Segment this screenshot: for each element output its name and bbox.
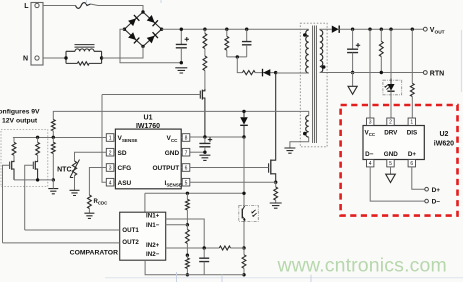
resistor R2 startup upper bbox=[203, 29, 207, 56]
svg-text:3: 3 bbox=[369, 120, 372, 126]
pin 8 U1 bbox=[181, 134, 190, 142]
pin 3 U2 bbox=[367, 118, 374, 126]
label U2 VCC bbox=[365, 129, 376, 137]
resistor R5 clamp bbox=[242, 71, 255, 75]
wire M1 gate from OUT2 bbox=[3, 165, 10, 243]
label OUTPUT pin6 bbox=[152, 165, 179, 172]
label iW620 bbox=[434, 141, 454, 148]
junction filter left bbox=[64, 56, 67, 59]
label N bbox=[23, 56, 28, 63]
diode D2 clamp bbox=[255, 69, 276, 77]
svg-text:ASU: ASU bbox=[118, 180, 132, 187]
junction rail snubberR bbox=[225, 28, 228, 31]
svg-text:IW1760: IW1760 bbox=[136, 123, 160, 130]
label VCC pin8 bbox=[167, 135, 179, 143]
optocoupler U3 LED box bbox=[383, 80, 402, 95]
ic U2 iW620 box bbox=[363, 126, 424, 160]
label L bbox=[24, 3, 29, 10]
junction VOUT LED bbox=[389, 28, 392, 31]
svg-text:3: 3 bbox=[109, 166, 112, 172]
bridge diode bottom-left bbox=[128, 32, 139, 43]
wire IN1+ bbox=[166, 219, 205, 248]
fuse F1 bbox=[76, 3, 91, 9]
junction filter right bbox=[100, 56, 103, 59]
label U2 bbox=[440, 131, 449, 138]
svg-text:COMPARATOR: COMPARATOR bbox=[70, 249, 118, 256]
svg-text:6: 6 bbox=[410, 161, 413, 167]
label D- bbox=[432, 199, 441, 206]
junction bottom rail opto bbox=[242, 273, 245, 276]
junction VOUT DIS bbox=[411, 28, 414, 31]
wire HV rail bbox=[162, 28, 309, 30]
node secondary phase dot bbox=[322, 65, 326, 69]
wire ISENSE line bbox=[190, 181, 276, 183]
junction VOUT C5 bbox=[351, 28, 354, 31]
svg-text:D+: D+ bbox=[408, 151, 417, 158]
node primary phase dot bbox=[303, 33, 307, 37]
pin 6 U1 bbox=[181, 164, 190, 172]
junction VSENSE R9 bbox=[36, 136, 39, 139]
transformer T1 auxiliary winding bbox=[306, 116, 309, 138]
junction bridge bottom bbox=[141, 45, 144, 48]
wire DC minus route bbox=[120, 29, 181, 63]
ground NTC bbox=[70, 190, 80, 195]
resistor R8 divider lower bbox=[51, 137, 55, 180]
wire config source rail bbox=[14, 179, 53, 181]
junction rail A chain bbox=[186, 192, 189, 195]
svg-text:2: 2 bbox=[109, 150, 112, 156]
op-amp U1 iW1760 box bbox=[115, 129, 181, 189]
capacitor C3 VCC bbox=[199, 137, 212, 152]
label U2 D+ bbox=[408, 151, 417, 158]
wire fuse to bridge top bbox=[91, 4, 144, 12]
label IN2- bbox=[146, 251, 160, 258]
resistor R16 IN2+ series bbox=[219, 246, 230, 250]
resistor R3 startup lower bbox=[203, 56, 207, 89]
label U1 bbox=[144, 115, 153, 122]
red dashed box U2 section bbox=[341, 105, 458, 216]
label VOUT bbox=[430, 27, 445, 36]
label U2 DIS bbox=[407, 129, 418, 136]
transistor Q2 main MOSFET bbox=[269, 73, 276, 182]
wire CFG to RCDC bbox=[89, 168, 106, 196]
bridge rectifier BR1 frame bbox=[124, 12, 161, 46]
junction bridge top bbox=[141, 10, 144, 13]
svg-text:U1: U1 bbox=[144, 115, 153, 122]
bridge diode top-left bbox=[128, 15, 139, 26]
svg-text:1: 1 bbox=[410, 120, 413, 126]
wire Q1 gate to ASU riser bbox=[102, 94, 200, 96]
junction config ground node bbox=[52, 178, 55, 181]
label SD pin2 bbox=[118, 150, 127, 157]
capacitor C2 snubber bbox=[242, 29, 252, 57]
wire OUT1 bbox=[25, 229, 120, 231]
transformer T1 core bbox=[313, 26, 317, 144]
resistor R14 chain mid bbox=[185, 225, 189, 255]
svg-text:CFG: CFG bbox=[118, 165, 132, 172]
svg-text:D−: D− bbox=[432, 199, 441, 206]
wire snubber down bbox=[237, 57, 242, 73]
svg-text:IN1+: IN1+ bbox=[146, 213, 160, 220]
svg-text:Configures 9V: Configures 9V bbox=[0, 108, 40, 115]
wire ASU riser bbox=[102, 95, 106, 183]
junction bridge left bbox=[123, 28, 126, 31]
junction chain IN1- bbox=[186, 223, 189, 226]
label VSENSE pin1 bbox=[118, 135, 138, 143]
label ISENSE pin5 bbox=[165, 180, 182, 188]
capacitor C1 bulk bbox=[176, 29, 189, 63]
resistor R13 chain top bbox=[185, 193, 189, 225]
bridge diode top-right bbox=[147, 15, 158, 26]
wire OUTPUT to gate bbox=[190, 167, 269, 169]
label ASU pin4 bbox=[118, 180, 132, 187]
svg-text:RTN: RTN bbox=[430, 70, 444, 77]
transistor Q1 startup MOSFET bbox=[200, 89, 205, 137]
ground RCDC bbox=[84, 213, 94, 218]
ground U2 GND pin bbox=[386, 167, 396, 183]
resistor R12 opto emitter bbox=[242, 248, 246, 275]
label 12V output bbox=[2, 118, 38, 125]
wire SD to NTC bbox=[75, 152, 107, 161]
junction rail C1 bbox=[180, 28, 183, 31]
inductor L1 common-mode choke winding bbox=[75, 45, 95, 52]
label COMPARATOR bbox=[70, 249, 118, 256]
label IN2+ bbox=[146, 242, 160, 249]
junction RTN C5 bbox=[351, 71, 354, 74]
wire aux bottom bbox=[290, 137, 309, 148]
wire M2 gate from OUT1 bbox=[25, 165, 34, 230]
wire bottom rail bbox=[145, 260, 244, 275]
label U2 DRV bbox=[384, 129, 398, 136]
svg-text:D−: D− bbox=[365, 151, 374, 158]
junction VSENSE divider bbox=[52, 136, 55, 139]
svg-text:OUTPUT: OUTPUT bbox=[152, 165, 179, 172]
ground sense resistor bbox=[270, 203, 282, 208]
junction chain IN2- bbox=[186, 254, 189, 257]
junction VOUT U2VCC bbox=[368, 28, 371, 31]
page artifact bottom line bbox=[105, 277, 463, 279]
junction aux diode bbox=[242, 110, 245, 113]
svg-text:5: 5 bbox=[389, 161, 392, 167]
svg-text:GND: GND bbox=[165, 150, 180, 157]
node aux phase dot bbox=[303, 132, 307, 136]
svg-text:www.cntronics.com: www.cntronics.com bbox=[277, 255, 447, 277]
wire secondary top to diode bbox=[320, 28, 332, 31]
node RTN terminal bbox=[423, 71, 427, 75]
wire R16 to opto bbox=[231, 247, 245, 249]
ground secondary bbox=[348, 73, 357, 95]
svg-text:7: 7 bbox=[185, 150, 188, 156]
comparator U4 box bbox=[120, 212, 166, 260]
svg-text:4: 4 bbox=[109, 180, 112, 186]
pin 4 U2 bbox=[367, 160, 374, 168]
svg-text:12V output: 12V output bbox=[2, 118, 38, 125]
svg-text:OUT1: OUT1 bbox=[122, 227, 139, 234]
label GND pin7 bbox=[165, 150, 180, 157]
wire snubber join bbox=[227, 56, 247, 58]
resistor R17 preload bbox=[379, 29, 383, 72]
svg-text:DRV: DRV bbox=[384, 129, 398, 136]
resistor R7 divider upper bbox=[51, 120, 55, 138]
svg-text:SD: SD bbox=[118, 150, 127, 157]
resistor R10 config B bbox=[36, 137, 40, 160]
diode D3 VCC rectifier bbox=[240, 111, 248, 137]
transformer T1 secondary winding bbox=[320, 30, 323, 73]
label OUT1 bbox=[122, 227, 139, 234]
wire opto emitter bbox=[243, 222, 245, 248]
wire primary bottom to Q2 drain bbox=[276, 72, 309, 74]
node D+ terminal bbox=[425, 187, 429, 191]
watermark www.cntronics.com bbox=[277, 255, 447, 277]
svg-text:5: 5 bbox=[185, 180, 188, 186]
junction rail snubberC bbox=[245, 28, 248, 31]
wire GND line bbox=[190, 151, 205, 153]
wire RTN line bbox=[320, 72, 424, 74]
pin 6 U2 bbox=[408, 160, 415, 168]
wire VOUT rail bbox=[339, 28, 423, 30]
label U2 D- bbox=[365, 151, 374, 158]
pin 2 U2 bbox=[387, 118, 394, 126]
svg-text:GND: GND bbox=[384, 151, 398, 158]
resistor R11 RCDC bbox=[88, 195, 92, 213]
pin 1 U2 bbox=[408, 118, 415, 126]
label D+ bbox=[432, 187, 441, 194]
node VOUT terminal bbox=[423, 27, 427, 31]
junction source rail bbox=[36, 178, 39, 181]
dotted box config switches bbox=[1, 130, 48, 187]
svg-text:8: 8 bbox=[185, 136, 188, 142]
resistor R1 damping bbox=[77, 62, 89, 65]
junction rail startup bbox=[203, 28, 206, 31]
svg-text:6: 6 bbox=[185, 166, 188, 172]
pin 5 U2 bbox=[387, 160, 394, 168]
label IW1760 bbox=[136, 123, 160, 130]
wire config node to ground bbox=[52, 180, 54, 189]
ground VSENSE divider bbox=[48, 189, 58, 194]
resistor R18 DIS pullup bbox=[410, 29, 414, 118]
junction C1 bottom bbox=[180, 61, 183, 64]
svg-text:RCDC: RCDC bbox=[94, 199, 109, 206]
pin 2 U1 bbox=[106, 148, 115, 156]
resistor R15 chain bottom bbox=[185, 255, 189, 275]
wire VCC to opto collector bbox=[243, 137, 245, 206]
resistor R4 snubber bbox=[225, 29, 229, 57]
wire IN2+ bbox=[166, 247, 220, 249]
ground aux return bbox=[284, 148, 295, 153]
junction bridge right bbox=[160, 28, 163, 31]
page artifact ticks bbox=[177, 272, 312, 282]
diode D1 output rectifier bbox=[332, 26, 339, 33]
pin 3 U1 bbox=[106, 164, 115, 172]
pin 4 U1 bbox=[106, 178, 115, 186]
filter loop frame bbox=[66, 51, 102, 63]
wire U2 VCC riser bbox=[369, 29, 371, 118]
optocoupler U3 transistor box bbox=[239, 206, 258, 222]
svg-text:IN1−: IN1− bbox=[146, 222, 160, 229]
node D- terminal bbox=[425, 199, 429, 203]
svg-text:4: 4 bbox=[369, 161, 372, 167]
svg-text:IN2−: IN2− bbox=[146, 251, 160, 258]
svg-text:1: 1 bbox=[109, 136, 112, 142]
capacitor C5 output bbox=[347, 29, 360, 72]
transformer T1 primary winding bbox=[306, 30, 309, 73]
optocoupler U3 phototransistor bbox=[242, 206, 256, 223]
label RCDC bbox=[94, 199, 109, 206]
label IN1+ bbox=[146, 213, 160, 220]
junction VCC cap bbox=[203, 135, 206, 138]
label OUT2 bbox=[122, 239, 139, 246]
svg-text:U2: U2 bbox=[440, 131, 449, 138]
pin 5 U1 bbox=[181, 178, 190, 186]
label U2 GND bbox=[384, 151, 398, 158]
wire D+ to terminal bbox=[412, 167, 425, 189]
junction Q2 source bbox=[274, 181, 277, 184]
transistor M1 config switch A bbox=[10, 161, 14, 180]
page artifact right edge bbox=[460, 30, 462, 92]
ground primary DC minus bbox=[175, 68, 187, 73]
label RTN bbox=[430, 70, 444, 77]
junction RTN preload bbox=[380, 71, 383, 74]
junction bottom rail chain bbox=[186, 273, 189, 276]
svg-text:NTC: NTC bbox=[57, 166, 71, 173]
thermistor NTC bbox=[70, 160, 80, 191]
transistor M2 config switch B bbox=[33, 161, 37, 180]
transformer T1 shield dotted box bbox=[300, 23, 327, 147]
junction VCC diode bottom bbox=[242, 135, 245, 138]
connector J1 AC input bbox=[31, 3, 43, 66]
junction snubber bbox=[236, 55, 239, 58]
wire D- to terminal bbox=[370, 167, 425, 201]
junction IN2+ cap bbox=[203, 246, 206, 249]
wire filter to bridge bottom bbox=[102, 46, 143, 58]
wire N to filter bbox=[43, 57, 66, 59]
junction VOUT preload bbox=[380, 28, 383, 31]
wire OUT2 bbox=[3, 242, 120, 244]
page artifact top tick bbox=[87, 0, 162, 4]
bridge diode bottom-right bbox=[147, 32, 158, 43]
capacitor C4 filter bbox=[199, 248, 209, 275]
wire IN1- bbox=[166, 224, 188, 226]
wire VSENSE line bbox=[13, 137, 106, 139]
svg-text:DIS: DIS bbox=[407, 129, 418, 136]
svg-text:OUT2: OUT2 bbox=[122, 239, 139, 246]
label IN1- bbox=[146, 222, 160, 229]
wire L to fuse bbox=[43, 5, 76, 7]
svg-text:IN2+: IN2+ bbox=[146, 242, 160, 249]
wire VCC line bbox=[190, 136, 244, 138]
resistor R9 config A bbox=[12, 137, 16, 160]
label CFG pin3 bbox=[118, 165, 132, 172]
pin 1 U1 bbox=[106, 134, 115, 142]
svg-text:L: L bbox=[24, 3, 29, 10]
wire rail A bbox=[145, 193, 244, 212]
ground U1 GND bbox=[199, 155, 210, 160]
pin 7 U1 bbox=[181, 148, 190, 156]
svg-text:D+: D+ bbox=[432, 187, 441, 194]
junction clamp drain bbox=[274, 71, 277, 74]
wire LED branch bbox=[390, 29, 392, 78]
resistor R6 current sense bbox=[274, 182, 278, 203]
label NTC bbox=[57, 166, 71, 173]
junction rail A opto bbox=[242, 192, 245, 195]
junction opto emitter bbox=[242, 246, 245, 249]
svg-text:N: N bbox=[23, 56, 28, 63]
wire aux line bbox=[53, 111, 308, 119]
label Configures 9V bbox=[0, 108, 40, 115]
junction GND cap bbox=[203, 151, 206, 154]
diode D4 opto LED bbox=[384, 79, 394, 119]
svg-text:2: 2 bbox=[389, 120, 392, 126]
svg-text:iW620: iW620 bbox=[434, 141, 454, 148]
